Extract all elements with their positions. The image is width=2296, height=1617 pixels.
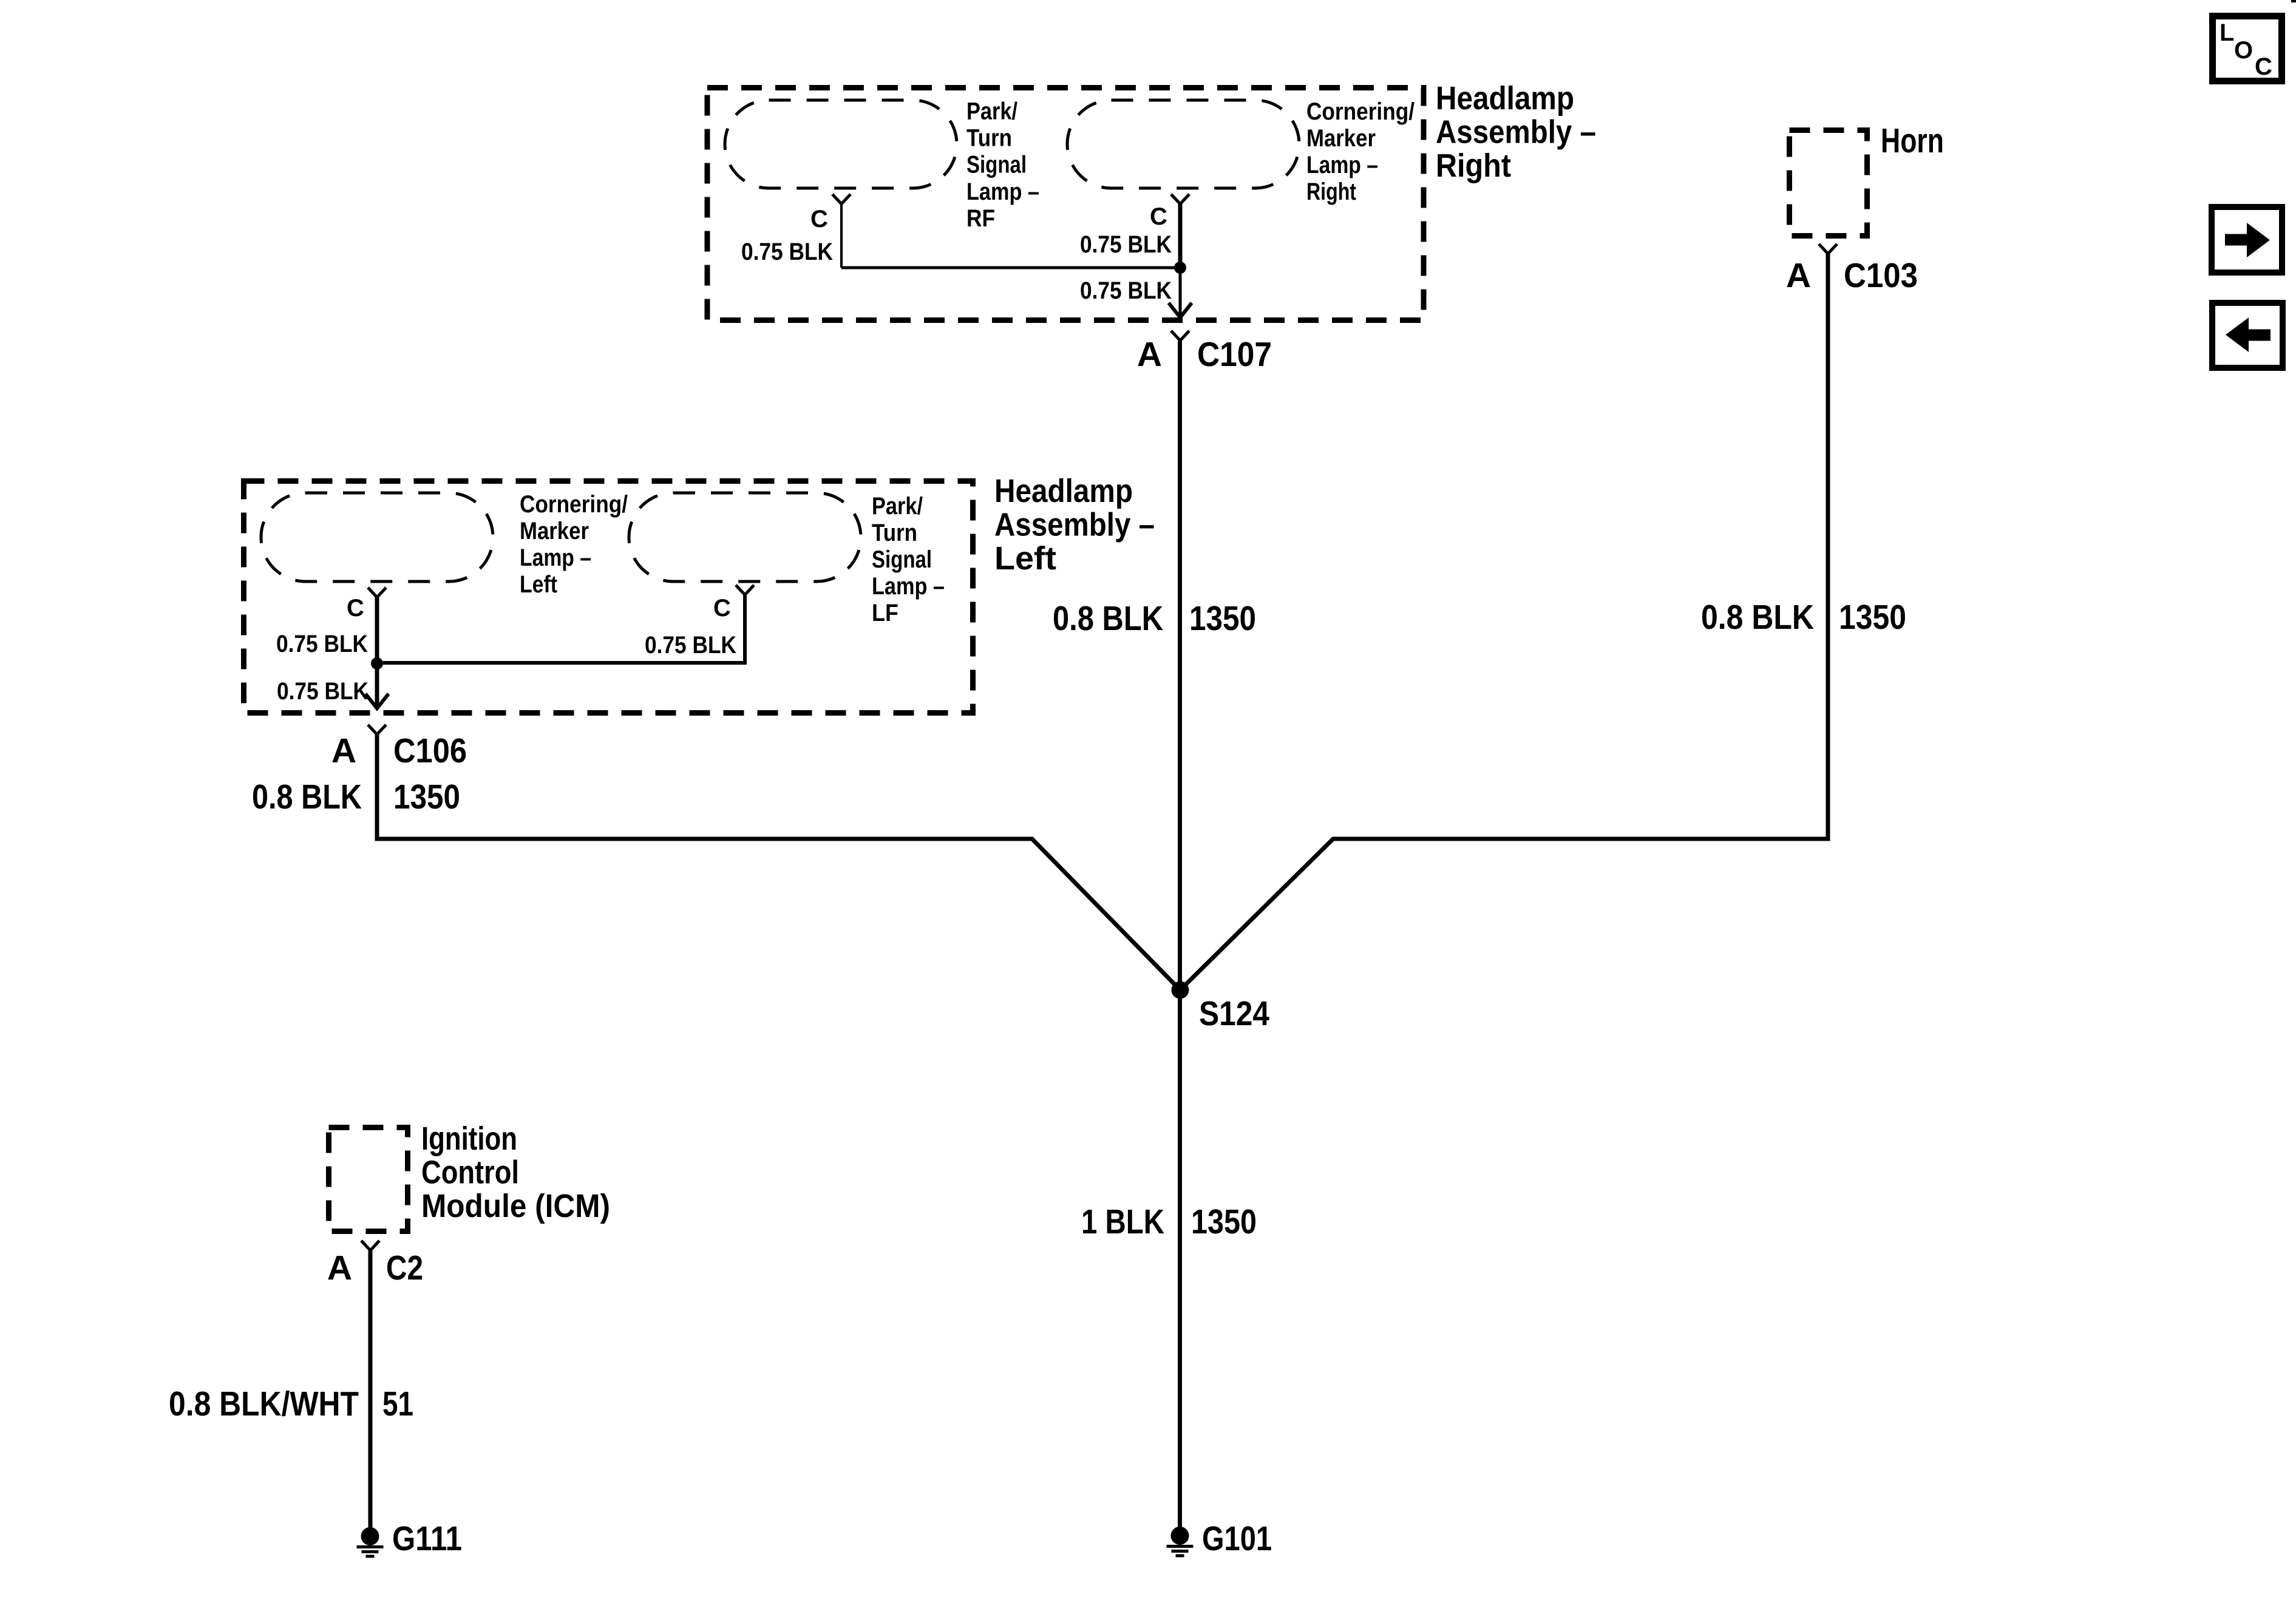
svg-text:Right: Right [1436,147,1511,184]
svg-text:Lamp –: Lamp – [520,544,591,571]
svg-text:S124: S124 [1199,994,1269,1033]
svg-text:Cornering/: Cornering/ [520,491,628,518]
svg-text:Assembly –: Assembly – [994,507,1155,543]
label park/turn signal lamp LF [872,493,945,626]
svg-text:1350: 1350 [393,778,460,816]
svg-text:Park/: Park/ [966,98,1017,125]
svg-text:Turn: Turn [966,125,1012,152]
svg-text:G101: G101 [1202,1519,1272,1558]
connector C2 [361,1241,379,1250]
svg-text:A: A [327,1249,352,1287]
svg-text:Left: Left [994,540,1056,577]
pin C of park/turn lamp LF [736,585,754,595]
svg-text:1350: 1350 [1191,1202,1257,1241]
wire cornering left down [375,597,379,705]
horn box [1790,131,1867,236]
title headlamp assembly right [1436,80,1596,184]
svg-text:C107: C107 [1197,335,1272,374]
svg-text:G111: G111 [392,1519,462,1558]
pin C of cornering lamp right [1171,194,1189,204]
svg-text:C: C [1150,203,1167,230]
connector C107 [1171,331,1189,341]
svg-text:Left: Left [520,571,557,598]
headlamp assembly right box [707,88,1424,320]
svg-text:Lamp –: Lamp – [966,178,1039,205]
connector C106 [368,725,386,734]
svg-text:Turn: Turn [872,520,917,546]
svg-text:1350: 1350 [1839,598,1906,637]
pin C of park/turn lamp RF [832,194,851,204]
svg-text:Headlamp: Headlamp [1436,80,1574,117]
label cornering/marker lamp left [520,491,628,598]
svg-text:0.8 BLK: 0.8 BLK [1701,598,1814,637]
svg-text:0.75 BLK: 0.75 BLK [276,631,368,657]
svg-text:L: L [2220,19,2234,46]
wire C107 to S124 [1178,341,1182,990]
svg-text:Ignition: Ignition [421,1120,517,1157]
arrowhead exit right box [1169,303,1192,317]
svg-text:Marker: Marker [520,518,589,544]
svg-text:LF: LF [872,600,898,626]
arrowhead exit left box [365,694,389,708]
svg-text:0.75 BLK: 0.75 BLK [1080,231,1172,258]
wire junction to exit (right box) [1179,268,1182,314]
svg-text:RF: RF [966,205,995,232]
svg-text:0.8 BLK: 0.8 BLK [1053,599,1163,638]
svg-text:0.75 BLK: 0.75 BLK [741,239,833,265]
splice S124 [1172,981,1189,999]
page corner mark [2291,0,2296,2]
wire S124 to G101 [1178,990,1182,1527]
title headlamp assembly left [994,473,1155,577]
LOC legend box [2213,16,2282,81]
svg-text:0.75 BLK: 0.75 BLK [645,632,736,659]
svg-text:0.75 BLK: 0.75 BLK [277,678,369,705]
svg-text:A: A [331,731,356,770]
cornering/marker lamp left outline [261,493,493,581]
park/turn signal lamp RF outline [725,100,957,188]
ground G111 [357,1527,384,1556]
ignition control module box [329,1128,408,1232]
wire junction horizontal (right box) [841,266,1180,269]
label cornering/marker lamp right [1306,98,1415,205]
svg-text:1350: 1350 [1189,599,1256,638]
svg-text:C103: C103 [1844,256,1918,295]
park/turn signal lamp LF outline [629,493,861,581]
svg-text:A: A [1786,256,1811,295]
svg-text:C: C [347,595,364,622]
svg-text:A: A [1137,335,1162,374]
svg-text:O: O [2234,37,2253,64]
right-arrow legend box [2212,207,2282,273]
svg-text:Signal: Signal [872,546,932,573]
svg-text:51: 51 [382,1385,413,1423]
ground G101 [1167,1527,1194,1556]
wire C106 to S124 [377,734,1180,990]
label park/turn signal lamp RF [966,98,1039,232]
svg-text:C: C [810,206,828,232]
cornering/marker lamp right outline [1067,100,1299,188]
svg-text:Lamp –: Lamp – [1306,152,1378,178]
svg-text:Headlamp: Headlamp [994,473,1133,509]
wire LF lamp to junction [377,595,745,663]
svg-text:1 BLK: 1 BLK [1081,1202,1164,1241]
svg-text:C106: C106 [393,731,467,770]
wire RF lamp to junction [840,204,843,268]
svg-text:Marker: Marker [1306,125,1376,152]
left-arrow legend box [2212,303,2283,368]
headlamp assembly left box [244,481,973,713]
svg-text:0.8 BLK: 0.8 BLK [252,778,362,816]
svg-text:Assembly –: Assembly – [1436,114,1596,151]
svg-text:Signal: Signal [966,152,1027,178]
svg-text:Control: Control [421,1154,519,1191]
wire cornering lamp right down [1178,204,1183,268]
pin C of cornering lamp left [368,588,386,597]
title ignition control module (ICM) [421,1120,610,1224]
svg-text:C2: C2 [386,1249,423,1287]
svg-text:Module (ICM): Module (ICM) [421,1188,610,1224]
svg-text:Lamp –: Lamp – [872,573,945,600]
svg-text:Park/: Park/ [872,493,923,520]
svg-text:C: C [2255,53,2272,80]
svg-text:C: C [713,595,731,622]
svg-text:Right: Right [1306,178,1356,205]
wire C2 to G111 [369,1250,373,1528]
svg-text:Horn: Horn [1881,121,1944,160]
svg-text:Cornering/: Cornering/ [1306,98,1415,125]
junction (left box) [371,657,383,670]
svg-text:0.8 BLK/WHT: 0.8 BLK/WHT [169,1385,359,1423]
svg-text:0.75 BLK: 0.75 BLK [1080,277,1172,304]
wire C103 to S124 [1180,254,1828,990]
connector C103 [1819,244,1837,254]
junction (right box) [1174,262,1186,274]
